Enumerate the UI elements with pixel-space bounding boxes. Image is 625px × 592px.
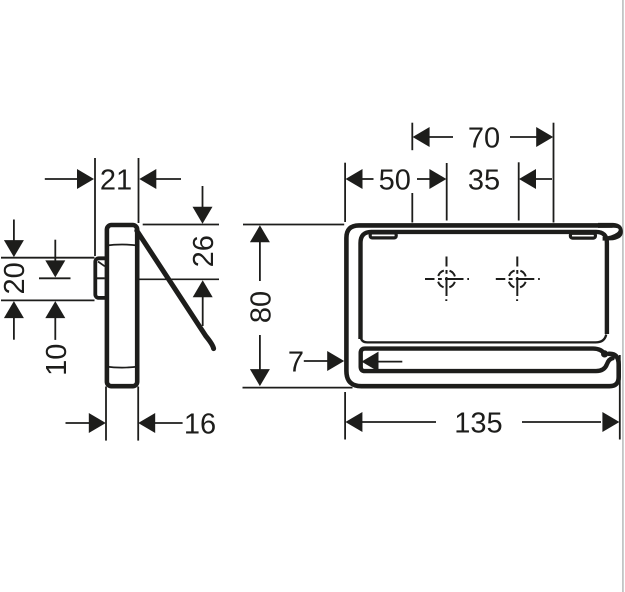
svg-text:16: 16	[184, 409, 216, 441]
dim 7	[288, 347, 402, 379]
extension line hole center (10 dim)	[39, 277, 71, 279]
svg-text:20: 20	[0, 262, 31, 294]
plate bottom chamfer line	[106, 367, 139, 368]
dim 26	[188, 186, 220, 326]
svg-text:35: 35	[468, 165, 500, 197]
right page border	[622, 0, 624, 592]
extension line block bottom (20/10 dim)	[1, 299, 95, 301]
dim 70	[413, 123, 554, 155]
block inner chamfer	[98, 262, 105, 267]
screw hole 1 crosshair	[425, 257, 469, 302]
svg-text:70: 70	[468, 123, 500, 155]
extension line 21 right	[138, 158, 140, 223]
outer frame: top bar, left edge, bottom edge, right hook	[346, 225, 618, 386]
extension line 135 left	[344, 392, 346, 440]
extension line 35 right	[518, 162, 520, 220]
extension line 70 left (upper piece)	[411, 123, 413, 151]
dim 35	[468, 165, 552, 197]
extension line 135 right	[619, 355, 621, 440]
back panel	[361, 232, 607, 339]
wall mount block	[95, 258, 111, 298]
mounting plate	[107, 225, 137, 386]
extension line 16 right	[137, 387, 139, 441]
top bar right end cap	[598, 223, 623, 241]
svg-text:10: 10	[41, 344, 73, 376]
clip left	[370, 233, 396, 238]
dim 80	[246, 225, 278, 386]
extension line 16 left	[105, 387, 107, 441]
svg-text:26: 26	[188, 235, 220, 267]
dim 21	[45, 165, 181, 197]
screw hole 2 crosshair	[496, 257, 540, 302]
back panel bottom edge	[361, 335, 606, 343]
dim 50	[346, 165, 447, 197]
plate top chamfer line	[106, 245, 139, 246]
dim 135	[345, 408, 619, 440]
svg-text:21: 21	[100, 165, 132, 197]
dim 16	[66, 409, 217, 441]
roll rail inner channel with right curl	[361, 349, 613, 372]
wire: hole-center level line right of plate	[139, 278, 219, 280]
extension line 70 right	[553, 123, 555, 223]
dim 10	[41, 240, 73, 376]
extension line 50 left	[344, 163, 346, 222]
extension line 80/7 bottom	[243, 387, 353, 389]
svg-text:135: 135	[454, 408, 502, 440]
svg-text:50: 50	[379, 165, 411, 197]
hook junction blob	[601, 350, 608, 357]
extension line block top (20 dim)	[1, 257, 95, 259]
svg-text:7: 7	[288, 347, 304, 379]
svg-text:80: 80	[246, 291, 278, 323]
wire: top level line (26 dim, side view)	[143, 224, 219, 226]
extension line 21 left	[94, 158, 96, 256]
extension line hole1 center	[446, 163, 448, 221]
extension line 70 left (lower piece)	[411, 193, 413, 223]
clip right	[570, 233, 595, 238]
block center line	[97, 277, 105, 279]
dim 20	[0, 220, 31, 340]
extension line 80 top	[243, 224, 344, 226]
roll holder arm	[137, 231, 214, 349]
